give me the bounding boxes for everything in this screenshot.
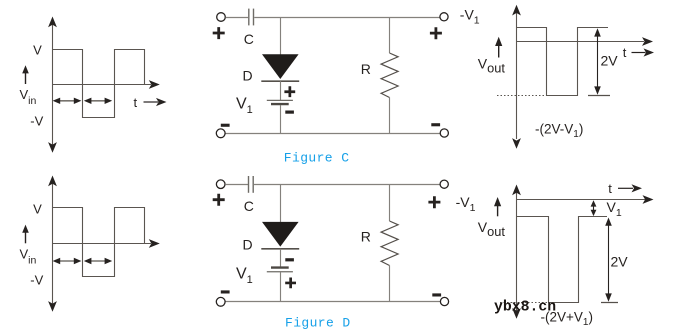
Vout square wave (top-right graph) bbox=[516, 28, 608, 96]
terminal top-right (Fig C) bbox=[440, 13, 448, 21]
period marker arrow 1 (top-left graph) bbox=[53, 98, 82, 104]
svg-text:t: t bbox=[134, 95, 138, 110]
svg-text:V: V bbox=[33, 202, 42, 217]
diode D (Fig C) bbox=[261, 54, 299, 81]
capacitor C plates (Fig D) bbox=[249, 176, 254, 193]
capacitor C plates (Fig C) bbox=[249, 9, 254, 26]
battery V1 (Fig C) bbox=[267, 100, 293, 104]
wire resistor to bottom rail (Fig C) bbox=[389, 98, 391, 134]
svg-text:-V: -V bbox=[30, 113, 43, 128]
period marker arrow 2 (top-left graph) bbox=[84, 98, 112, 104]
wire resistor to bottom rail (Fig D) bbox=[389, 266, 391, 302]
Vin square wave (top-left graph) bbox=[52, 50, 145, 118]
wire top rail to resistor (Fig D) bbox=[389, 185, 391, 222]
svg-text:R: R bbox=[361, 61, 371, 77]
terminal top-left (Fig D) bbox=[216, 180, 225, 189]
2V dimension arrow (bottom-right graph) bbox=[601, 218, 618, 303]
minus label bottom-right (Fig D) bbox=[432, 293, 441, 296]
wire top rail to diode (Fig D) bbox=[280, 185, 282, 223]
svg-text:R: R bbox=[361, 229, 371, 245]
svg-text:V: V bbox=[33, 43, 42, 58]
plus label input (Fig D) bbox=[213, 194, 225, 206]
Vin square wave (bottom-left graph) bbox=[52, 208, 145, 277]
t horizontal axis (top-right graph) bbox=[516, 37, 653, 46]
svg-text:ybx8.cn: ybx8.cn bbox=[494, 300, 556, 316]
svg-text:D: D bbox=[242, 68, 252, 84]
Vout vertical axis (bottom-right graph) bbox=[512, 185, 521, 319]
dotted level line (bottom-right graph) bbox=[500, 302, 548, 304]
Vin up arrow bbox=[22, 65, 29, 84]
terminal bottom-left (Fig D) bbox=[216, 297, 225, 306]
bottom rail wire (Fig C) bbox=[225, 133, 440, 135]
t label arrow (top-right graph) bbox=[632, 48, 655, 56]
wire diode to battery (Fig D) bbox=[280, 249, 282, 267]
top rail wire capacitor to output terminal (Fig D) bbox=[254, 184, 440, 186]
terminal top-right (Fig D) bbox=[440, 180, 448, 188]
t horizontal axis (top-left graph) bbox=[52, 80, 160, 89]
svg-text:C: C bbox=[244, 198, 254, 214]
battery V1 (Fig D, reversed) bbox=[267, 268, 293, 272]
wire battery to bottom rail (Fig C) bbox=[280, 105, 282, 134]
plus label input (Fig C) bbox=[213, 27, 225, 39]
terminal bottom-left (Fig C) bbox=[216, 129, 225, 138]
bottom rail wire (Fig D) bbox=[225, 301, 440, 303]
Vout up arrow (top-right graph) bbox=[495, 37, 502, 58]
2V dimension arrow (top-right graph) bbox=[588, 28, 610, 95]
t horizontal axis (bottom-left graph) bbox=[52, 239, 160, 248]
terminal bottom-right (Fig D) bbox=[440, 297, 448, 305]
minus label bottom-right (Fig C) bbox=[431, 123, 440, 126]
resistor R (Fig C) bbox=[381, 53, 398, 98]
period marker arrow 1 (bottom-left graph) bbox=[53, 258, 82, 264]
Vout up arrow (bottom-right graph) bbox=[494, 197, 501, 216]
wire top rail to resistor (Fig C) bbox=[389, 18, 391, 54]
battery minus label (Fig C) bbox=[285, 111, 294, 114]
plus label output (Fig C) bbox=[430, 27, 442, 39]
wire top rail to diode (Fig C) bbox=[280, 18, 282, 55]
svg-text:2V: 2V bbox=[611, 254, 629, 270]
svg-text:-V: -V bbox=[30, 272, 43, 287]
period marker arrow 2 (bottom-left graph) bbox=[84, 258, 112, 264]
terminal bottom-right (Fig C) bbox=[440, 129, 448, 137]
svg-text:Figure D: Figure D bbox=[285, 316, 351, 331]
svg-text:2V: 2V bbox=[601, 53, 619, 69]
t label arrow (top-left graph) bbox=[144, 98, 167, 106]
dotted level line (top-right graph) bbox=[497, 95, 546, 97]
Vin up arrow (bottom-left graph) bbox=[22, 225, 29, 244]
terminal top-left (Fig C) bbox=[217, 13, 226, 22]
t label arrow (bottom-right graph) bbox=[618, 184, 642, 192]
Vout square wave (bottom-right graph) bbox=[517, 217, 608, 303]
plus label output (Fig D) bbox=[428, 196, 440, 208]
wire input to capacitor (Fig C) bbox=[226, 17, 249, 19]
wire input to capacitor (Fig D) bbox=[225, 184, 248, 186]
minus label bottom-left (Fig D) bbox=[221, 290, 230, 293]
battery minus label (Fig D) bbox=[285, 258, 294, 261]
top rail wire capacitor to output terminal (Fig C) bbox=[254, 17, 439, 19]
Vout vertical axis (top-right graph) bbox=[512, 5, 521, 149]
minus label bottom-left (Fig C) bbox=[221, 124, 230, 127]
Vin vertical axis (top-left graph) bbox=[48, 17, 57, 153]
svg-text:t: t bbox=[623, 45, 627, 60]
t horizontal axis (bottom-right graph) bbox=[517, 195, 654, 204]
Vin vertical axis (bottom-left graph) bbox=[48, 176, 57, 312]
battery plus label (Fig D) bbox=[285, 278, 296, 289]
resistor R (Fig D) bbox=[381, 221, 398, 266]
battery plus label (Fig C) bbox=[284, 86, 295, 97]
V1 dimension arrow (bottom-right graph) bbox=[591, 200, 597, 216]
wire battery to bottom rail (Fig D) bbox=[280, 272, 282, 302]
wire diode to battery (Fig C) bbox=[280, 81, 282, 100]
diode D (Fig D) bbox=[261, 222, 299, 249]
svg-text:D: D bbox=[242, 237, 252, 253]
svg-text:C: C bbox=[244, 31, 254, 47]
svg-text:t: t bbox=[608, 181, 612, 196]
svg-text:Figure C: Figure C bbox=[284, 151, 350, 166]
